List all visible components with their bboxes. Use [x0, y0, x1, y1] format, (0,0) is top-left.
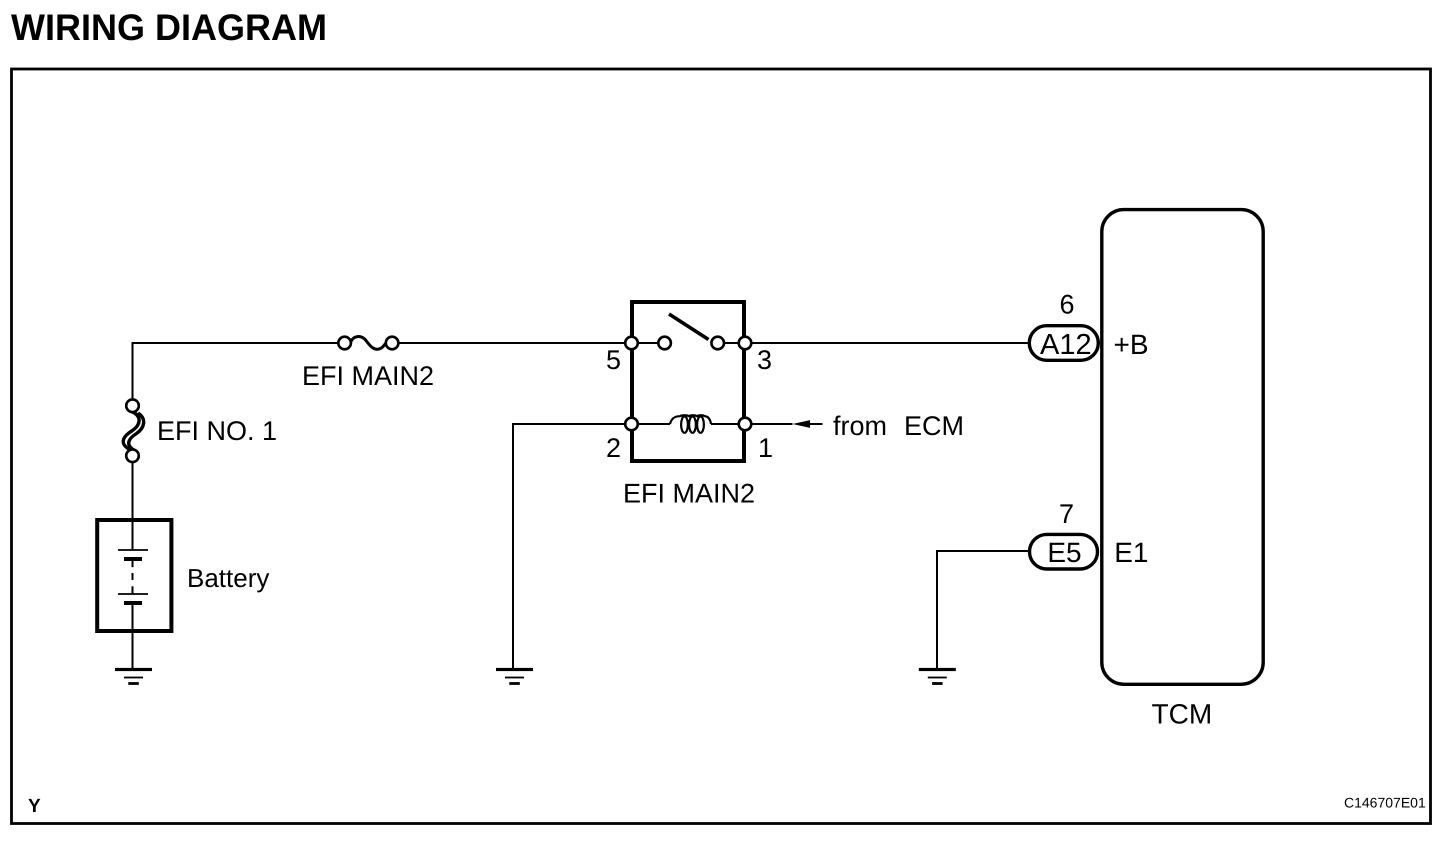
svg-text:2: 2: [606, 433, 621, 463]
svg-text:EFI MAIN2: EFI MAIN2: [302, 361, 434, 391]
svg-text:EFI NO. 1: EFI NO. 1: [157, 416, 277, 446]
svg-text:A12: A12: [1040, 329, 1092, 361]
svg-text:7: 7: [1059, 499, 1074, 529]
svg-text:Y: Y: [28, 796, 41, 817]
svg-text:C146707E01: C146707E01: [1344, 795, 1426, 811]
svg-text:E1: E1: [1114, 537, 1148, 568]
svg-text:WIRING DIAGRAM: WIRING DIAGRAM: [11, 7, 327, 48]
svg-text:E5: E5: [1047, 537, 1081, 568]
svg-text:1: 1: [758, 433, 773, 463]
svg-text:Battery: Battery: [187, 563, 269, 593]
svg-text:EFI MAIN2: EFI MAIN2: [623, 479, 755, 509]
svg-text:+B: +B: [1114, 329, 1149, 360]
svg-text:3: 3: [757, 345, 772, 375]
svg-text:TCM: TCM: [1152, 699, 1213, 730]
svg-text:ECM: ECM: [904, 411, 964, 441]
svg-text:5: 5: [606, 345, 621, 375]
svg-text:from: from: [833, 411, 887, 441]
svg-text:6: 6: [1059, 290, 1074, 320]
